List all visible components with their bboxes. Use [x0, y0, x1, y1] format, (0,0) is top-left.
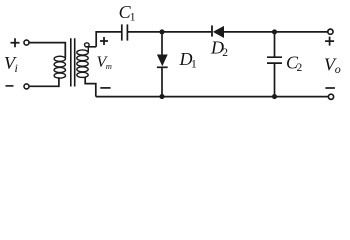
svg-text:m: m — [106, 61, 112, 71]
svg-text:2: 2 — [297, 62, 303, 74]
svg-text:i: i — [15, 61, 18, 75]
svg-text:1: 1 — [130, 12, 136, 24]
svg-text:2: 2 — [222, 47, 228, 59]
svg-text:1: 1 — [191, 59, 197, 71]
svg-text:o: o — [335, 62, 341, 76]
